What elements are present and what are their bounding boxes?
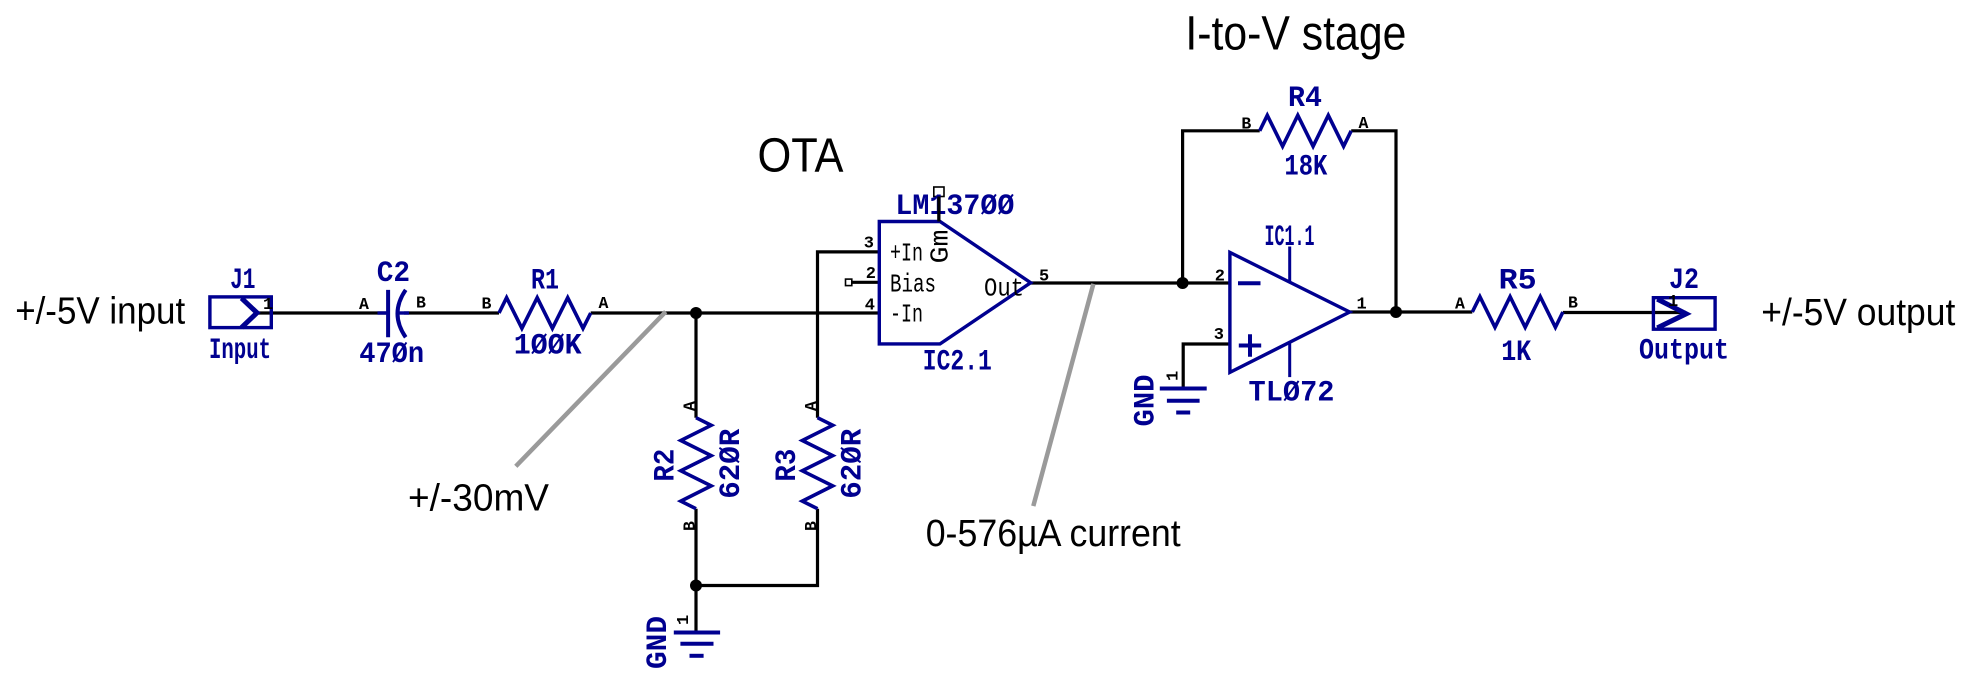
wire OTA top pin bbox=[937, 197, 940, 222]
OTA bias pin square bbox=[846, 279, 852, 286]
junction node R1/R2 bbox=[690, 307, 702, 319]
wire GND lead bbox=[694, 586, 697, 633]
capacitor C2 bbox=[378, 290, 410, 337]
svg-text:B: B bbox=[1568, 294, 1578, 313]
wire OTA bias stub bbox=[852, 281, 879, 284]
svg-text:R3: R3 bbox=[771, 449, 805, 482]
resistor R2 bbox=[681, 418, 711, 509]
svg-text:A: A bbox=[802, 401, 821, 411]
svg-text:LM137ØØ: LM137ØØ bbox=[895, 190, 1014, 224]
svg-text:Output: Output bbox=[1639, 335, 1729, 369]
svg-text:A: A bbox=[1359, 114, 1369, 133]
svg-text:GND: GND bbox=[642, 616, 676, 669]
svg-text:47Øn: 47Øn bbox=[359, 338, 424, 372]
svg-text:62ØR: 62ØR bbox=[715, 429, 749, 499]
wire OTA out to IC1 pin2 bbox=[1031, 281, 1230, 284]
ground GND2 bbox=[1160, 389, 1207, 413]
svg-text:+In: +In bbox=[890, 239, 923, 269]
junction node IC1 out bbox=[1390, 306, 1402, 318]
wire R3 top to OTA pin3 bbox=[818, 252, 880, 418]
svg-text:18K: 18K bbox=[1284, 151, 1327, 185]
op-amp power stub top bbox=[1288, 247, 1291, 282]
svg-text:OTA: OTA bbox=[758, 130, 844, 183]
op-amp U1 triangle bbox=[1230, 252, 1350, 372]
svg-text:GND: GND bbox=[1130, 375, 1164, 427]
resistor R5 bbox=[1472, 297, 1563, 328]
svg-text:Bias: Bias bbox=[890, 269, 936, 299]
OTA top pin square bbox=[934, 187, 944, 197]
svg-text:62ØR: 62ØR bbox=[837, 429, 871, 499]
svg-text:Gm: Gm bbox=[926, 230, 956, 264]
svg-text:1K: 1K bbox=[1501, 336, 1531, 370]
svg-text:B: B bbox=[1241, 115, 1251, 134]
junction node GND1 bbox=[690, 580, 702, 592]
wire J1 to C2 bbox=[257, 311, 386, 314]
svg-text:IC2.1: IC2.1 bbox=[923, 346, 992, 380]
pointer line to 0-576uA bbox=[1033, 284, 1093, 506]
wire R4 right leg bbox=[1351, 131, 1396, 312]
wire node to R2 bbox=[694, 313, 697, 418]
pointer line to +/-30mV bbox=[516, 312, 666, 467]
svg-text:C2: C2 bbox=[377, 257, 410, 291]
svg-text:-In: -In bbox=[890, 300, 923, 330]
svg-text:TLØ72: TLØ72 bbox=[1249, 377, 1335, 411]
wire R4 left leg bbox=[1183, 131, 1260, 283]
svg-text:1: 1 bbox=[263, 296, 273, 315]
svg-text:R4: R4 bbox=[1288, 82, 1322, 116]
svg-text:1: 1 bbox=[1357, 296, 1367, 315]
svg-text:3: 3 bbox=[1214, 326, 1224, 345]
junction node IC1 pin2 bbox=[1177, 277, 1189, 289]
svg-text:IC1.1: IC1.1 bbox=[1265, 221, 1315, 255]
wire IC1 pin3 to GND bbox=[1183, 344, 1230, 389]
svg-text:1ØØK: 1ØØK bbox=[514, 330, 582, 364]
svg-text:B: B bbox=[482, 295, 492, 314]
svg-text:4: 4 bbox=[865, 297, 875, 316]
svg-text:0-576µA current: 0-576µA current bbox=[926, 513, 1181, 555]
svg-text:2: 2 bbox=[866, 265, 876, 284]
svg-text:A: A bbox=[1455, 295, 1465, 314]
svg-text:A: A bbox=[599, 294, 609, 313]
svg-text:A: A bbox=[681, 401, 700, 411]
wire GND node to R3 bottom bbox=[696, 509, 818, 586]
connector J2 bbox=[1653, 298, 1715, 330]
svg-text:5: 5 bbox=[1039, 268, 1049, 287]
op-amp power stub bottom bbox=[1288, 344, 1291, 378]
svg-text:2: 2 bbox=[1215, 268, 1225, 287]
wire R2 to GND node bbox=[694, 509, 697, 586]
svg-text:Input: Input bbox=[209, 334, 271, 368]
resistor R1 bbox=[499, 298, 591, 329]
op-amp U2 OTA body bbox=[879, 222, 1030, 344]
svg-text:A: A bbox=[359, 295, 369, 314]
svg-text:J1: J1 bbox=[230, 264, 255, 298]
svg-text:B: B bbox=[681, 521, 700, 531]
svg-text:R5: R5 bbox=[1499, 265, 1537, 299]
wire R5 to J2 bbox=[1563, 311, 1686, 314]
wire IC1 out to R5 bbox=[1350, 310, 1473, 313]
svg-text:1: 1 bbox=[1165, 371, 1184, 381]
resistor R4 bbox=[1260, 115, 1352, 146]
ground GND1 bbox=[674, 633, 720, 656]
wire OTA top pin overlay bbox=[937, 197, 940, 222]
wire R1 to OTA pin4 bbox=[591, 311, 879, 314]
op-amp plus input mark bbox=[1239, 334, 1261, 356]
svg-text:+/-5V input: +/-5V input bbox=[15, 291, 185, 333]
svg-text:B: B bbox=[802, 521, 821, 531]
svg-text:I-to-V stage: I-to-V stage bbox=[1185, 8, 1406, 61]
svg-text:1: 1 bbox=[675, 615, 694, 625]
svg-text:+/-30mV: +/-30mV bbox=[408, 478, 550, 520]
svg-text:J2: J2 bbox=[1669, 264, 1699, 298]
resistor R3 bbox=[802, 418, 832, 509]
svg-text:+/-5V output: +/-5V output bbox=[1761, 292, 1955, 334]
svg-text:Out: Out bbox=[984, 274, 1024, 304]
svg-text:R2: R2 bbox=[650, 449, 684, 482]
op-amp minus input mark bbox=[1238, 281, 1261, 285]
connector J1 bbox=[210, 297, 271, 328]
svg-text:3: 3 bbox=[864, 235, 874, 254]
wire C2 to R1 bbox=[404, 311, 499, 314]
svg-text:B: B bbox=[416, 294, 426, 313]
svg-text:R1: R1 bbox=[531, 265, 559, 299]
